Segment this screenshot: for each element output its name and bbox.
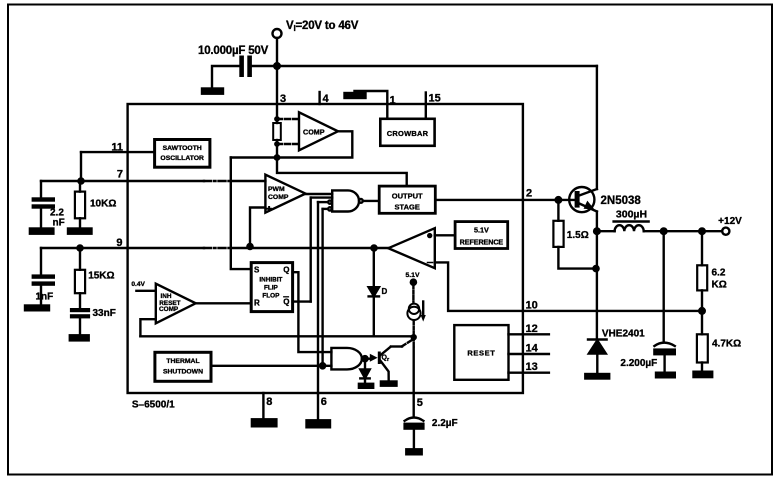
svg-text:RESET: RESET [467,349,495,358]
svg-text:7: 7 [117,169,123,181]
svg-text:R: R [254,299,260,308]
svg-text:REFERENCE: REFERENCE [460,237,504,246]
svg-text:STAGE: STAGE [395,203,420,212]
svg-text:INH: INH [161,293,172,300]
svg-text:1: 1 [390,95,396,107]
svg-text:6: 6 [321,396,327,408]
svg-text:VHE2401: VHE2401 [602,329,645,340]
svg-text:4: 4 [323,93,330,105]
svg-text:OSCILLATOR: OSCILLATOR [160,155,204,162]
svg-text:COMP: COMP [159,306,179,313]
svg-text:FLOP: FLOP [262,292,280,299]
svg-text:300µH: 300µH [616,209,647,221]
svg-text:5.1V: 5.1V [406,272,420,279]
svg-text:KΩ: KΩ [712,280,727,291]
svg-text:PWM: PWM [268,186,285,193]
svg-text:4.7KΩ: 4.7KΩ [712,339,741,350]
svg-text:2: 2 [526,188,532,200]
svg-text:3: 3 [280,93,286,105]
svg-text:COMP: COMP [268,194,289,201]
svg-text:13: 13 [526,361,538,373]
svg-text:12: 12 [526,323,538,335]
svg-text:1.5Ω: 1.5Ω [567,230,589,241]
svg-text:CROWBAR: CROWBAR [387,129,429,138]
svg-text:2.200µF: 2.200µF [620,358,657,369]
svg-text:11: 11 [111,142,123,154]
svg-text:10: 10 [526,300,538,312]
svg-text:S: S [254,266,260,275]
svg-text:VI=20V to 46V: VI=20V to 46V [286,20,359,33]
svg-text:6.2: 6.2 [712,268,726,279]
svg-text:Q: Q [283,298,289,307]
svg-text:OUTPUT: OUTPUT [392,192,423,201]
svg-text:8: 8 [266,396,272,408]
svg-text:SHUTDOWN: SHUTDOWN [163,368,203,375]
svg-text:10KΩ: 10KΩ [90,199,116,210]
svg-text:15KΩ: 15KΩ [88,271,114,282]
svg-text:INHIBIT: INHIBIT [259,276,282,283]
svg-text:5.1V: 5.1V [474,226,489,235]
svg-text:9: 9 [116,237,122,249]
svg-text:FLIP: FLIP [264,285,279,292]
svg-text:S–6500/1: S–6500/1 [132,400,175,411]
svg-text:10.000µF 50V: 10.000µF 50V [198,45,269,57]
svg-text:+12V: +12V [718,216,742,227]
svg-text:2N5038: 2N5038 [601,195,642,207]
svg-text:1nF: 1nF [36,292,54,303]
svg-text:0.4V: 0.4V [131,281,145,288]
svg-text:nF: nF [53,218,65,229]
svg-text:SAWTOOTH: SAWTOOTH [163,145,202,152]
svg-text:2.2µF: 2.2µF [432,418,458,429]
svg-text:Q: Q [283,266,289,275]
svg-text:15: 15 [429,93,441,105]
svg-text:COMP: COMP [303,127,325,136]
svg-text:14: 14 [526,342,539,354]
svg-text:5: 5 [417,397,423,409]
svg-text:33nF: 33nF [93,308,116,319]
svg-text:THERMAL: THERMAL [166,358,199,365]
svg-text:D: D [382,287,388,296]
